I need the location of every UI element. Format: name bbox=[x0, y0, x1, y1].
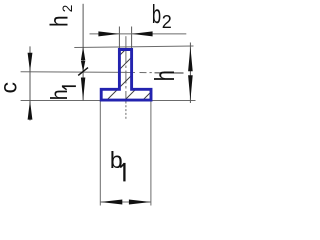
c arrow down (outside, above axis line) bbox=[28, 53, 33, 72]
svg-text:b: b bbox=[152, 0, 161, 29]
h2 arrow down at axis bbox=[81, 61, 85, 72]
slash at shared boundary bbox=[78, 68, 88, 76]
svg-text:h: h bbox=[46, 89, 72, 100]
horizontal centre axis long dash (merges with label h) bbox=[155, 72, 184, 74]
vertical centre axis below flange (dotted) bbox=[125, 102, 127, 120]
horizontal centre axis dot bbox=[150, 72, 152, 74]
b1 extension line right bbox=[150, 101, 152, 206]
hatching (clipped to profile) bbox=[73, 44, 199, 102]
extension line at stem top (left end y=47.5, right end y=46.0) bbox=[74, 46, 193, 48]
b2 arrow left (points right at stem left edge) bbox=[98, 31, 119, 36]
b1 arrow left bbox=[100, 200, 122, 205]
h1 arrow down at flange bottom bbox=[81, 78, 85, 101]
horizontal centre axis, solid left part bbox=[21, 71, 135, 74]
svg-text:b: b bbox=[110, 147, 123, 173]
label b1 subscript 1 (drawn as strokes) bbox=[120, 163, 124, 182]
h dimension line (x=190.4) bbox=[189, 43, 191, 104]
b2 arrow right (points left at stem right edge) bbox=[132, 31, 153, 36]
svg-text:c: c bbox=[0, 82, 22, 94]
svg-text:h: h bbox=[46, 15, 74, 27]
vertical centre axis, upper segment bbox=[125, 36, 127, 48]
vertical centre axis through profile bbox=[125, 50, 127, 100]
h arrow up bbox=[188, 47, 193, 72]
svg-text:2: 2 bbox=[162, 12, 172, 32]
profile outline (blue) bbox=[101, 50, 151, 101]
horizontal centre axis dash bbox=[140, 72, 147, 74]
b1 extension line left bbox=[99, 101, 101, 206]
b2 dimension line bbox=[90, 33, 187, 35]
c arrow up (outside, below bottom line) bbox=[28, 101, 33, 120]
extension line at flange bottom (y=100.5) bbox=[21, 100, 196, 102]
svg-text:h: h bbox=[149, 70, 180, 81]
svg-text:2: 2 bbox=[60, 5, 75, 13]
b2 extension line left bbox=[118, 27, 120, 49]
label h1 subscript 1 (rotated, drawn as strokes) bbox=[62, 86, 76, 90]
b1 dimension line bbox=[100, 201, 151, 203]
h2 arrow up at stem top bbox=[81, 47, 85, 61]
h2/h1 dimension line (x=83.1) bbox=[82, 4, 84, 101]
b1 arrow right bbox=[129, 200, 151, 205]
b2 extension line right bbox=[131, 27, 133, 49]
c dimension line (x=30) bbox=[29, 46, 31, 120]
h arrow down bbox=[188, 75, 193, 100]
